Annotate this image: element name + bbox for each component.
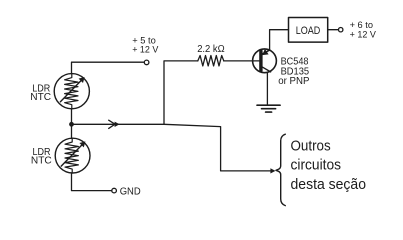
svg-text:circuitos: circuitos	[291, 158, 342, 174]
LOAD box	[289, 18, 328, 43]
label +5 to +12 V	[132, 36, 159, 56]
transistor Q1 circle	[253, 49, 277, 73]
LDR2 diagonal arrow line	[61, 143, 84, 166]
transistor Q1 top lead diagonal (with arrow into bar)	[263, 50, 270, 54]
junction node between LDRs	[69, 122, 74, 127]
svg-text:+ 12 V: + 12 V	[132, 44, 159, 55]
wire: resistor to transistor base	[224, 60, 259, 62]
LDR1 sensor circle	[54, 74, 89, 109]
LDR1 diagonal arrow line	[60, 79, 83, 102]
terminal GND (open circle)	[112, 188, 117, 193]
terminal +6 to +12 V (open circle)	[339, 28, 343, 32]
wire: junction to supply-branch tee	[72, 123, 165, 125]
svg-text:NTC: NTC	[30, 92, 51, 103]
transistor Q1 bottom lead diagonal	[263, 67, 271, 72]
svg-text:GND: GND	[120, 187, 141, 198]
svg-text:or PNP: or PNP	[278, 76, 309, 87]
svg-text:NTC: NTC	[31, 155, 52, 166]
svg-text:desta seção: desta seção	[291, 177, 367, 193]
LDR1 internal zigzag	[65, 74, 78, 109]
wire: supply branch corner down to junction row	[164, 61, 198, 124]
label Outros circuitos desta secao	[291, 138, 367, 193]
LDR2 arrowhead	[79, 141, 85, 147]
LDR2 sensor circle	[55, 138, 90, 173]
svg-text:LOAD: LOAD	[296, 25, 321, 37]
arrow chevron on junction wire	[109, 120, 115, 128]
wire: LOAD to +6..12V terminal	[328, 29, 339, 31]
brace (curly)	[276, 134, 285, 205]
label LDR/NTC (upper)	[30, 84, 51, 103]
transistor Q1 base bar	[259, 51, 262, 71]
label LDR/NTC (lower)	[31, 147, 52, 167]
wire: emitter down to ground	[266, 72, 268, 105]
svg-text:Outros: Outros	[291, 138, 331, 154]
wire: LDR2 bottom down and right to GND terminal	[72, 173, 112, 191]
wire: between LDR1 and LDR2	[71, 109, 73, 139]
label +6 to +12 V	[350, 20, 377, 40]
label BC548 BD135 or PNP	[278, 57, 309, 87]
arrowhead filled on junction wire	[115, 122, 120, 127]
wire: collector up and right to LOAD	[270, 30, 289, 50]
arrowhead into brace	[270, 168, 275, 173]
ground	[257, 105, 280, 112]
svg-text:+ 12 V: + 12 V	[350, 29, 377, 40]
transistor Q1 arrowhead (points into bar)	[262, 49, 268, 55]
LDR1 arrowhead	[79, 77, 85, 83]
wire: tee slanting right then down then right to brace	[164, 124, 271, 171]
wire: LDR1 top up and right to +V terminal	[72, 62, 145, 73]
resistor 2.2 kOhm	[198, 56, 224, 66]
LDR2 internal zigzag	[65, 138, 78, 173]
terminal +5 to +12 V (open circle)	[144, 60, 149, 65]
svg-text:2.2 kΩ: 2.2 kΩ	[197, 44, 225, 55]
